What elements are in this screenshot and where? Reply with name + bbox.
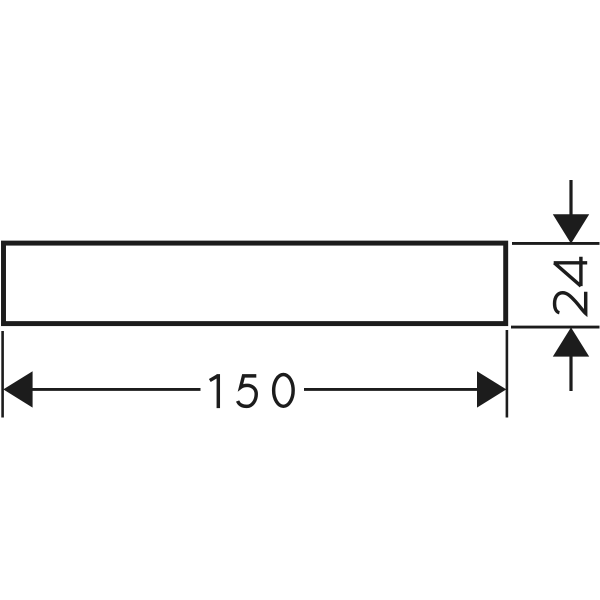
digit 0: [274, 375, 294, 407]
extension line right (150 dim): [506, 330, 509, 418]
digit 2: [555, 292, 586, 314]
dimension line 150 right segment: [304, 388, 479, 391]
vertical dim line top (24 dim): [569, 180, 572, 216]
digit 5: [238, 376, 257, 407]
digit 1: [210, 374, 219, 408]
arrowhead left (150 dim): [3, 371, 32, 407]
arrowhead up (24 dim): [553, 327, 589, 356]
extension line bottom (24 dim): [511, 326, 600, 329]
extension line top (24 dim): [512, 242, 600, 245]
vertical dim line bottom (24 dim): [569, 355, 572, 391]
extension line left (150 dim): [1, 331, 4, 418]
product outline rectangle: [4, 243, 506, 324]
arrowhead right (150 dim): [477, 371, 506, 407]
label 150: [210, 374, 293, 408]
arrowhead down (24 dim): [553, 214, 589, 243]
digit 4: [554, 257, 588, 286]
label 24 (rotated): [554, 257, 588, 314]
dimension line 150 left segment: [31, 388, 201, 391]
